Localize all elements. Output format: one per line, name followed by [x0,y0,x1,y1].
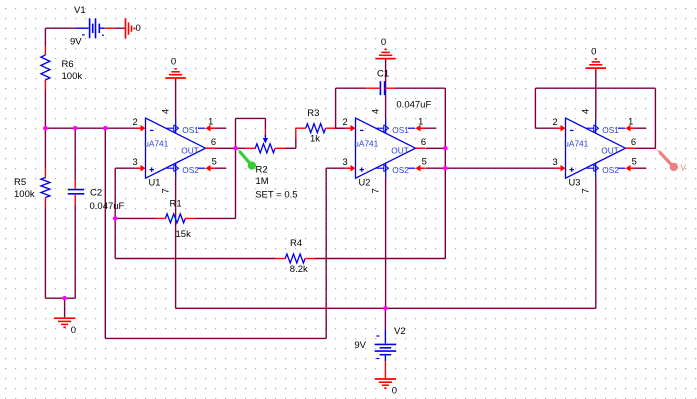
svg-text:R4: R4 [290,238,302,249]
wire ground to U3 pin4 [595,68,597,118]
wire R2 to riser [285,147,296,149]
svg-text:OS2: OS2 [602,165,619,175]
svg-text:2: 2 [133,117,138,127]
ground 0 above U3 [586,59,606,68]
wire output to R2 [236,147,246,149]
svg-text:0: 0 [136,23,141,34]
svg-text:U1: U1 [149,177,161,187]
svg-text:R1: R1 [170,198,182,209]
svg-text:2: 2 [343,117,348,127]
wire to R4 left [115,258,275,260]
wire U1 output [215,147,236,149]
wire U1 pin7 down [175,178,177,308]
svg-text:5: 5 [212,157,217,167]
resistor R5 [41,168,50,208]
svg-text:U3: U3 [569,177,581,187]
svg-text:0: 0 [71,325,76,336]
U1 pin number 4 [160,109,170,114]
junction [443,146,448,151]
capacitor C2 [68,179,84,205]
wire U3 output [635,147,655,149]
svg-text:8.2k: 8.2k [290,264,308,275]
svg-text:C1: C1 [377,68,389,79]
svg-text:OUT: OUT [601,146,619,156]
op-amp U2 (uA741) [345,118,425,187]
wire feedback loop up [235,118,237,148]
wire U3 pin5 stub [636,167,647,169]
junction [43,126,48,131]
potentiometer R2 [245,135,285,153]
svg-text:5: 5 [422,157,427,167]
svg-text:100k: 100k [62,71,83,82]
svg-text:R6: R6 [62,59,74,70]
battery V1 [76,18,115,38]
wire U2 loop left [335,88,337,128]
svg-text:0.047uF: 0.047uF [90,201,125,212]
wire V1 right to ground [115,27,125,29]
wire U2 pin3 down [325,168,327,338]
junction [103,126,108,131]
wire U1 pin3 [115,167,135,169]
svg-text:4: 4 [580,109,590,114]
op-amp U3 (uA741) [555,118,635,187]
svg-text:0: 0 [171,56,176,67]
svg-text:9V: 9V [70,36,82,47]
wire U3 pin7 down [595,178,597,308]
wire U2 pin3 [326,167,345,169]
svg-text:6: 6 [211,137,216,147]
svg-text:1: 1 [208,116,213,126]
wire U3 loop left [534,88,536,128]
svg-text:uA741: uA741 [144,139,168,149]
resistor R4 [275,254,315,263]
svg-text:1: 1 [418,116,423,126]
svg-text:6: 6 [421,137,426,147]
wire R6 to node row [44,89,46,128]
wire bus to V2 [384,308,386,329]
op-amp U1 (uA741) [135,118,215,187]
wire riser to R3 [295,138,297,148]
wire V1 to R6 [44,28,46,46]
wire C2 to ground rail [74,205,76,298]
wire node row to U1 pin2 [45,127,135,129]
svg-text:OS1: OS1 [602,125,619,135]
svg-text:0: 0 [591,46,596,57]
wire ground rail [45,297,75,299]
wire U2 output [426,147,446,149]
svg-text:R3: R3 [307,108,319,119]
svg-text:3: 3 [343,157,348,167]
svg-text:1k: 1k [310,134,320,145]
wire U3 pin2 [535,127,555,129]
svg-text:OS2: OS2 [182,165,199,175]
svg-text:OS1: OS1 [392,125,409,135]
ground 0 above U1 [165,69,185,78]
U2 pin number 4 [370,109,380,114]
voltage marker (green) at U1 output [236,149,256,170]
wire R5 to ground rail [44,208,46,299]
wire to R1 left [115,217,155,219]
wire U2 pin1 stub [426,127,437,129]
svg-text:2: 2 [553,117,558,127]
svg-text:OUT: OUT [181,146,199,156]
svg-text:SET = 0.5: SET = 0.5 [255,189,297,200]
wire C1 to loop right [395,87,445,89]
wire U1 pin3 down [114,168,116,258]
ground 0 at V2 [375,379,396,388]
svg-text:0: 0 [381,37,386,48]
svg-text:9V: 9V [354,340,366,351]
junction [113,216,118,221]
wire U2 pin7 down [385,178,387,308]
junction [73,126,78,131]
svg-text:100k: 100k [14,189,35,200]
wire U1 pin1 stub [216,127,227,129]
resistor R6 [41,46,50,89]
wire bottom bus to U2 pin3 [105,337,326,339]
wire U2 pin5 to U3 pin3 [445,167,555,169]
svg-text:6: 6 [631,137,636,147]
wire feedback loop top [236,117,266,119]
svg-text:V: V [681,163,687,172]
svg-text:V1: V1 [74,5,86,16]
svg-text:4: 4 [370,109,380,114]
resistor R3 [296,124,336,133]
wire V- bus [176,307,596,309]
wire U2 loop to C1 [336,87,367,89]
wire U2 loop right [444,88,446,258]
svg-text:OS2: OS2 [392,165,409,175]
svg-text:uA741: uA741 [354,139,378,149]
wire U2 pin2 [336,127,346,129]
resistor R1 [156,214,196,223]
wire to R2 wiper [264,118,266,129]
wire V1 left [45,27,76,29]
U2 pin number 7 [370,188,380,193]
svg-text:V2: V2 [394,326,406,337]
U1 pin number 7 [160,188,170,193]
svg-text:0.047uF: 0.047uF [396,100,431,111]
wire U3 loop top [535,87,655,89]
ground 0 at V1 [126,18,135,38]
wire R4 right [315,258,446,260]
wire U2 pin5 [426,167,445,169]
wire R1 to U1 output [235,148,237,218]
wire U3 pin1 stub [636,127,647,129]
junction [443,166,448,171]
wire ground to U1 pin4 [175,78,177,119]
svg-text:OS1: OS1 [182,125,199,135]
wire U1 pin5 stub [216,167,227,169]
svg-text:C2: C2 [90,187,102,198]
wire node row to C2 [74,128,76,179]
svg-text:1: 1 [628,116,633,126]
junction [233,146,238,151]
svg-text:3: 3 [553,157,558,167]
svg-text:1M: 1M [256,176,269,187]
wire R1 right [195,217,235,219]
svg-text:5: 5 [632,157,637,167]
svg-text:7: 7 [580,188,590,193]
svg-text:0: 0 [392,386,397,397]
wire ground to U2 pin4 [385,59,387,119]
battery V2 [375,329,397,379]
svg-text:7: 7 [160,188,170,193]
U3 pin number 4 [580,109,590,114]
ground 0 above U2 [375,49,395,58]
wire to ground symbol [64,298,66,317]
wire R3 to U2 pin2 [333,127,345,129]
svg-text:R2: R2 [256,165,268,176]
svg-text:7: 7 [370,188,380,193]
svg-text:15k: 15k [176,229,192,240]
ground 0 at left rail [54,318,75,327]
svg-text:U2: U2 [359,177,371,187]
svg-text:uA741: uA741 [564,139,588,149]
wire U3 loop right [654,88,656,148]
svg-text:4: 4 [160,109,170,114]
junction [383,306,388,311]
svg-text:OUT: OUT [391,146,409,156]
svg-text:R5: R5 [14,177,26,188]
wire node row to R5 [44,128,46,167]
U3 pin number 7 [580,188,590,193]
capacitor C1 [366,81,395,95]
wire node row down [104,128,106,338]
svg-text:3: 3 [133,157,138,167]
voltage probe marker (red) at U3 output [656,149,687,172]
junction [62,296,67,301]
